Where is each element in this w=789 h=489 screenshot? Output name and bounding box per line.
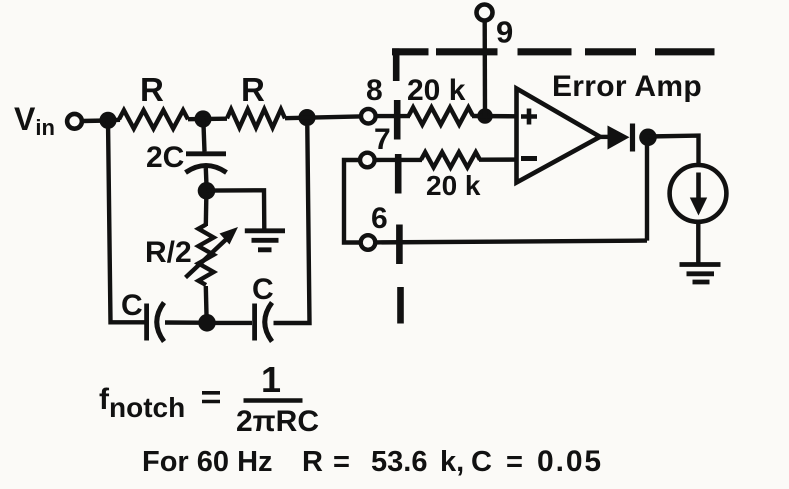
wire (165, 320, 199, 325)
wire node A down (203, 119, 204, 152)
pin 7 terminal (360, 153, 375, 168)
resistor 20k (top) (409, 107, 474, 124)
ground (twin-T) (245, 231, 285, 250)
wire feedback horizontal (376, 241, 647, 243)
pin 6 terminal (361, 235, 376, 250)
svg-text:R: R (302, 446, 323, 478)
dashed boundary vertical (396, 48, 400, 323)
svg-text:20 k: 20 k (407, 74, 466, 107)
svg-text:0.05: 0.05 (537, 445, 603, 478)
pin 8 terminal (361, 109, 376, 124)
op-amp + input mark (521, 109, 537, 125)
node E junction dot (198, 314, 216, 332)
pin 9 terminal (477, 5, 493, 21)
rheostat arrow (186, 240, 227, 278)
op-amp - input mark (521, 156, 537, 161)
resistor R2 (227, 109, 285, 127)
output junction dot (639, 129, 657, 147)
node junction dot at Vin (99, 112, 116, 129)
node D junction dot (198, 182, 216, 200)
svg-text:k,: k, (440, 446, 464, 478)
svg-text:8: 8 (366, 74, 383, 107)
wire current source to ground (696, 222, 700, 263)
wire (188, 116, 227, 121)
dashed boundary horizontal (392, 48, 715, 55)
node A junction dot (194, 110, 211, 127)
svg-text:9: 9 (496, 15, 513, 50)
svg-text:C: C (252, 273, 274, 306)
svg-text:1: 1 (261, 359, 281, 400)
wire to - input (479, 157, 517, 161)
svg-text:C: C (471, 446, 492, 478)
capacitor C (left) (144, 304, 149, 341)
svg-text:7: 7 (374, 123, 391, 156)
diode cathode bar (630, 124, 635, 152)
wire (216, 321, 253, 325)
wire (285, 116, 360, 118)
svg-text:53.6: 53.6 (371, 446, 427, 478)
svg-text:=: = (333, 446, 350, 478)
rheostat R/2 (198, 225, 213, 286)
wire to + input (472, 114, 517, 119)
resistor 20k (bottom) (421, 152, 480, 167)
wire node D to ground (207, 190, 265, 230)
svg-text:C: C (121, 289, 143, 322)
diode anode triangle (608, 126, 630, 150)
svg-text:Error Amp: Error Amp (552, 70, 702, 103)
svg-text:20 k: 20 k (426, 170, 481, 201)
wire right branch up (274, 126, 310, 323)
wire bracket pin7 to pin6 (344, 160, 360, 243)
wire (204, 198, 209, 226)
wire (204, 168, 209, 183)
wire feedback vertical (645, 140, 649, 241)
wire (376, 114, 410, 118)
wire left branch down (108, 121, 145, 323)
wire output to current source (648, 136, 699, 163)
op-amp error amplifier (517, 89, 601, 183)
wire (82, 118, 108, 123)
svg-text:R: R (241, 71, 265, 108)
node junction dot (pin9/+input) (477, 108, 493, 124)
ground (output) (680, 265, 721, 283)
svg-text:2πRC: 2πRC (236, 405, 319, 438)
capacitor 2C (186, 151, 226, 156)
svg-text:R: R (140, 71, 164, 108)
wire (374, 158, 422, 163)
svg-text:For 60 Hz: For 60 Hz (142, 446, 273, 478)
wire pin9 down (483, 21, 488, 116)
current source arrow (696, 173, 701, 201)
node B junction dot (298, 109, 315, 126)
svg-text:Vin: Vin (14, 101, 55, 140)
current source CS1 (670, 165, 727, 222)
input terminal (67, 114, 82, 129)
svg-text:R/2: R/2 (145, 236, 192, 269)
wire (204, 286, 209, 315)
svg-text:6: 6 (371, 202, 388, 235)
capacitor C (right) (252, 304, 257, 341)
formula fraction bar (244, 398, 303, 402)
svg-text:=: = (506, 446, 523, 478)
wire (108, 118, 120, 123)
svg-text:2C: 2C (146, 141, 184, 174)
formula equals (202, 393, 220, 402)
resistor R1 (119, 110, 188, 128)
wire (598, 135, 610, 139)
svg-text:notch: notch (109, 392, 185, 423)
